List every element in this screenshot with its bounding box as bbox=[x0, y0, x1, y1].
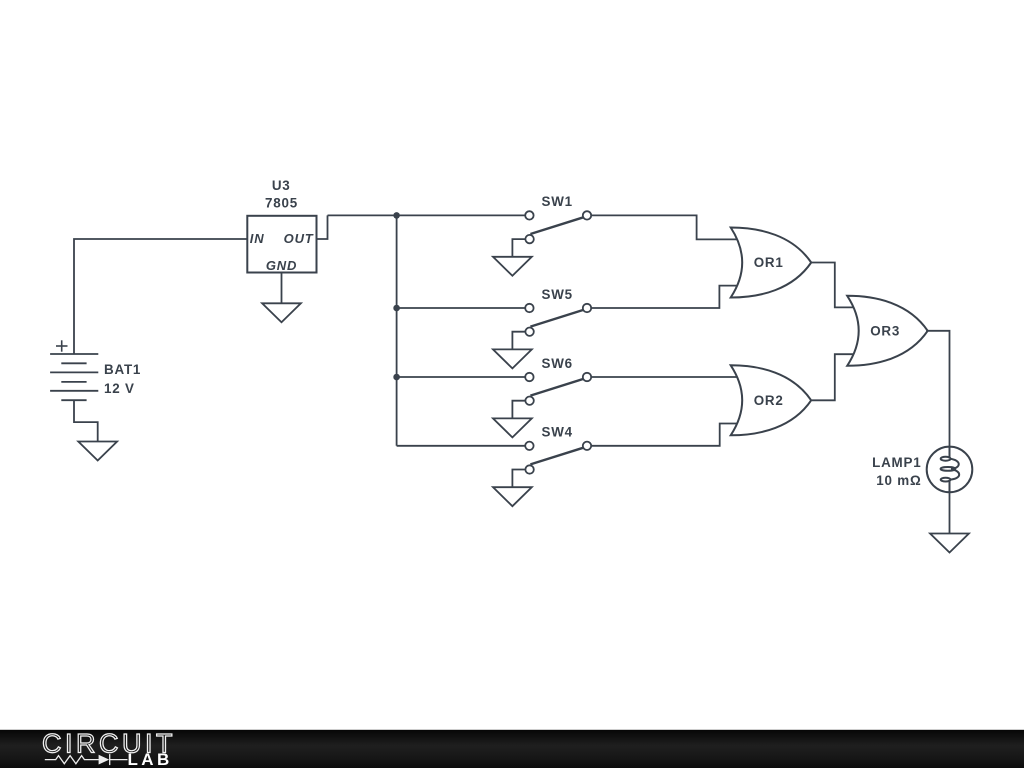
junction node at SW6 row bbox=[393, 374, 400, 381]
svg-text:BAT1: BAT1 bbox=[104, 362, 141, 377]
battery BAT1 bbox=[50, 340, 98, 400]
svg-text:SW1: SW1 bbox=[542, 194, 573, 209]
wire U3.GND to ground bbox=[281, 273, 283, 304]
svg-text:OR1: OR1 bbox=[754, 255, 784, 270]
svg-text:OR2: OR2 bbox=[754, 393, 784, 408]
wire SW5 to OR1 input B bbox=[591, 286, 744, 308]
switch SW5 bbox=[525, 304, 591, 336]
wire OR1 out to OR3 input A bbox=[811, 263, 860, 308]
wire bus to SW4 bbox=[397, 445, 525, 447]
CircuitLab logo: resistor-diode symbol bbox=[45, 754, 128, 765]
switch SW1 bbox=[525, 211, 591, 243]
svg-text:OUT: OUT bbox=[284, 231, 314, 246]
ground bbox=[493, 257, 532, 276]
switch SW4 bbox=[525, 442, 591, 474]
wire BAT1- to ground bbox=[74, 401, 98, 442]
svg-text:GND: GND bbox=[266, 258, 297, 273]
or-gate OR1 bbox=[731, 228, 812, 298]
wire OR2 out to OR3 input B bbox=[812, 354, 860, 400]
svg-text:LAB: LAB bbox=[128, 750, 173, 768]
wire 5V bus vertical bbox=[396, 215, 398, 445]
wire 5V rail to SW1 bbox=[328, 214, 526, 216]
ground bbox=[262, 303, 301, 322]
wire SW6 to OR2 input A bbox=[591, 376, 744, 378]
svg-text:U3: U3 bbox=[272, 178, 291, 193]
ground bbox=[493, 349, 532, 368]
wire SW6 throw to ground bbox=[512, 401, 525, 419]
svg-text:SW5: SW5 bbox=[542, 287, 573, 302]
svg-text:IN: IN bbox=[250, 231, 265, 246]
wire SW4 throw to ground bbox=[512, 470, 525, 488]
wire SW4 to OR2 input B bbox=[591, 424, 744, 446]
svg-text:LAMP1: LAMP1 bbox=[872, 455, 921, 470]
svg-text:7805: 7805 bbox=[265, 196, 298, 211]
wire U3.OUT jog bbox=[317, 215, 328, 239]
junction node at SW1 row bbox=[393, 212, 400, 219]
ground bbox=[493, 418, 532, 437]
junction node at SW5 row bbox=[393, 305, 400, 312]
wire SW1 throw to ground bbox=[512, 239, 525, 257]
lamp LAMP1 bbox=[927, 447, 973, 493]
wire U3.IN to BAT1+ bbox=[74, 239, 248, 354]
svg-text:12 V: 12 V bbox=[104, 381, 135, 396]
svg-text:OR3: OR3 bbox=[870, 324, 900, 339]
svg-text:10 mΩ: 10 mΩ bbox=[876, 473, 921, 488]
svg-text:SW6: SW6 bbox=[542, 356, 573, 371]
ground bbox=[493, 487, 532, 506]
ground bbox=[78, 442, 117, 461]
wire SW1 to OR1 input A bbox=[591, 215, 744, 239]
wire SW5 throw to ground bbox=[512, 332, 525, 350]
footer bar bbox=[0, 730, 1024, 768]
svg-text:SW4: SW4 bbox=[542, 425, 573, 440]
switch SW6 bbox=[525, 373, 591, 405]
wire bus to SW5 bbox=[397, 307, 525, 309]
ground bbox=[930, 534, 969, 553]
regulator U3 box bbox=[247, 216, 316, 273]
wire LAMP1 to ground bbox=[949, 492, 951, 533]
or-gate OR2 bbox=[731, 365, 812, 435]
wire OR3 out to LAMP1 bbox=[926, 331, 949, 447]
or-gate OR3 bbox=[847, 296, 928, 366]
wire bus to SW6 bbox=[397, 376, 525, 378]
